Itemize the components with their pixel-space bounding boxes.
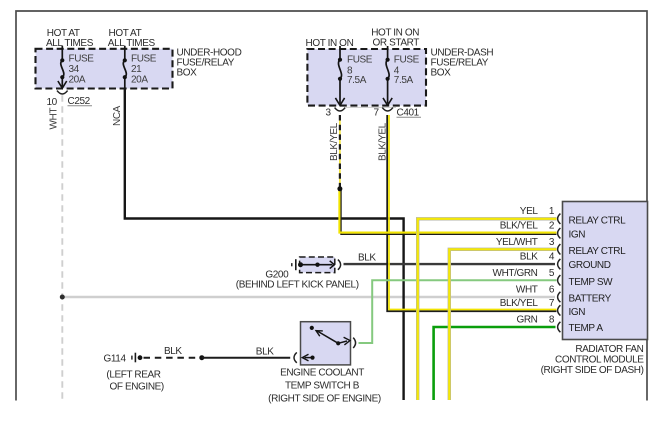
svg-text:BOX: BOX bbox=[431, 67, 452, 78]
svg-text:(RIGHT SIDE OF ENGINE): (RIGHT SIDE OF ENGINE) bbox=[268, 394, 381, 405]
svg-text:OF ENGINE): OF ENGINE) bbox=[110, 382, 164, 393]
svg-text:FUSE: FUSE bbox=[394, 54, 420, 65]
ground symbol G114 bbox=[132, 353, 136, 363]
node junction dot joining dashed and solid BLK/YEL bbox=[337, 186, 342, 191]
node junction dot on WHT wire bbox=[60, 295, 65, 300]
module pin 5 cup bbox=[558, 275, 561, 285]
svg-text:WHT/GRN: WHT/GRN bbox=[493, 268, 538, 279]
wire BLK/YEL to module pin 2 (IGN) - black part bbox=[341, 189, 557, 235]
svg-text:ENGINE COOLANT: ENGINE COOLANT bbox=[280, 368, 364, 379]
connector C252 cup bbox=[57, 91, 68, 94]
svg-text:RADIATOR FAN: RADIATOR FAN bbox=[575, 344, 643, 355]
connector C401 pin 7 cup bbox=[382, 108, 393, 111]
svg-text:BATTERY: BATTERY bbox=[569, 294, 612, 305]
svg-text:5: 5 bbox=[549, 268, 555, 279]
fuse 34 20A (under-hood) bbox=[58, 46, 67, 88]
svg-text:21: 21 bbox=[131, 64, 142, 75]
svg-text:RELAY CTRL: RELAY CTRL bbox=[569, 246, 627, 257]
engine coolant temp switch B box bbox=[301, 322, 351, 365]
wire YEL to module pin 1 (RELAY CTRL) - dark outline bbox=[418, 219, 557, 400]
svg-text:NCA: NCA bbox=[112, 105, 123, 126]
module pin 3 cup bbox=[558, 244, 561, 254]
wire BLK/YEL pair from C401 pin 7 to module pin 7 (IGN) - black part bbox=[387, 115, 556, 311]
svg-text:GROUND: GROUND bbox=[569, 260, 611, 271]
svg-text:BLK/YEL: BLK/YEL bbox=[329, 122, 340, 161]
wire YEL/WHT to module pin 3 (RELAY CTRL) - dark outline bbox=[449, 249, 556, 400]
svg-text:GRN: GRN bbox=[516, 315, 537, 326]
svg-text:BLK: BLK bbox=[256, 346, 274, 357]
connector C401 gray bar bbox=[346, 106, 396, 108]
wire BLK/YEL pair from C401 pin 7 to module pin 7 (IGN) - yellow part bbox=[389, 115, 557, 310]
svg-text:4: 4 bbox=[549, 252, 555, 263]
svg-text:FUSE: FUSE bbox=[347, 54, 373, 65]
svg-text:(RIGHT SIDE OF DASH): (RIGHT SIDE OF DASH) bbox=[541, 365, 644, 376]
svg-text:ALL TIMES: ALL TIMES bbox=[46, 38, 94, 49]
boxes-layer bbox=[36, 49, 648, 365]
svg-text:7.5A: 7.5A bbox=[347, 75, 367, 86]
svg-text:20A: 20A bbox=[69, 75, 86, 86]
module pin 7 cup bbox=[558, 305, 561, 315]
node junction dot on G114 BLK wire bbox=[199, 355, 204, 360]
wire BLK dashed from G114 bbox=[144, 357, 200, 359]
wire BLK/YEL dashed from C401 pin 3 - yellow underlay bbox=[339, 115, 341, 189]
radiator fan control module box bbox=[563, 202, 648, 340]
svg-text:(BEHIND LEFT KICK PANEL): (BEHIND LEFT KICK PANEL) bbox=[236, 279, 359, 290]
svg-text:HOT IN ON: HOT IN ON bbox=[306, 38, 354, 49]
svg-text:BLK: BLK bbox=[520, 252, 538, 263]
components-layer bbox=[57, 46, 560, 363]
svg-text:TEMP A: TEMP A bbox=[569, 323, 604, 334]
temp switch contact dot A bbox=[310, 326, 314, 330]
connector cup right of temp switch bbox=[353, 338, 355, 348]
under-hood fuse/relay box bbox=[36, 49, 173, 89]
svg-text:ALL TIMES: ALL TIMES bbox=[108, 38, 156, 49]
svg-text:IGN: IGN bbox=[569, 230, 586, 241]
svg-text:FUSE: FUSE bbox=[131, 54, 157, 65]
svg-text:TEMP SW: TEMP SW bbox=[569, 277, 614, 288]
module pin 6 cup bbox=[558, 292, 561, 302]
svg-text:BLK: BLK bbox=[164, 346, 182, 357]
svg-text:34: 34 bbox=[69, 64, 80, 75]
wire GRN from module pin 8 (TEMP A) down off-page bbox=[434, 327, 556, 400]
wire BLK from G200 to module pin 4 (GROUND) bbox=[344, 263, 556, 265]
wire YEL to module pin 1 (RELAY CTRL) - yellow core bbox=[418, 219, 557, 400]
wire WHT/GRN from module pin 5 (TEMP SW) to temp switch bbox=[359, 280, 557, 343]
wire YEL/WHT to module pin 3 (RELAY CTRL) - yellow core bbox=[449, 249, 556, 400]
svg-text:WHT: WHT bbox=[49, 108, 60, 130]
svg-text:7: 7 bbox=[549, 298, 555, 309]
svg-text:6: 6 bbox=[549, 285, 555, 296]
wire BLK solid from junction to engine coolant temp switch B bbox=[202, 357, 290, 359]
svg-text:7.5A: 7.5A bbox=[394, 75, 414, 86]
ground symbol G200 bbox=[292, 259, 296, 270]
module pin 8 cup bbox=[558, 322, 561, 332]
svg-text:20A: 20A bbox=[131, 75, 148, 86]
svg-text:3: 3 bbox=[549, 237, 555, 248]
svg-text:WHT: WHT bbox=[516, 285, 538, 296]
svg-text:IGN: IGN bbox=[569, 307, 586, 318]
fuse 21 20A (under-hood) bbox=[123, 46, 126, 89]
svg-text:BLK/YEL: BLK/YEL bbox=[500, 221, 539, 232]
svg-text:FUSE: FUSE bbox=[69, 54, 95, 65]
wire BLK/YEL dashed from C401 pin 3 - black dashes bbox=[339, 115, 341, 189]
svg-text:BOX: BOX bbox=[177, 67, 198, 78]
wire WHT horizontal to module pin 6 (BATTERY) bbox=[62, 296, 555, 299]
svg-text:BLK/YEL: BLK/YEL bbox=[500, 298, 539, 309]
fuse 8 7.5A (under-dash) bbox=[335, 46, 344, 105]
under-dash fuse/relay box bbox=[307, 49, 426, 106]
svg-text:YEL/WHT: YEL/WHT bbox=[496, 237, 538, 248]
fuse 4 7.5A (under-dash) bbox=[383, 46, 392, 105]
svg-text:OR START: OR START bbox=[373, 37, 420, 48]
svg-text:7: 7 bbox=[374, 108, 380, 119]
svg-text:G114: G114 bbox=[104, 354, 127, 365]
svg-text:YEL: YEL bbox=[520, 206, 539, 217]
svg-text:1: 1 bbox=[549, 206, 555, 217]
ground G200 box bbox=[300, 257, 335, 273]
temp switch arm with arrowhead bbox=[317, 331, 338, 343]
temp switch pivot dot B bbox=[336, 341, 340, 345]
module pin 1 cup bbox=[558, 214, 561, 224]
svg-text:TEMP SWITCH B: TEMP SWITCH B bbox=[285, 381, 360, 392]
connector cup left of temp switch bbox=[294, 352, 297, 362]
svg-text:BLK: BLK bbox=[358, 252, 376, 263]
connector C401 pin 3 cup bbox=[335, 108, 346, 111]
module pin 4 cup bbox=[558, 259, 561, 269]
wire NCA black from fuse 21 down, right, and down off-page bbox=[125, 89, 404, 401]
svg-text:3: 3 bbox=[326, 108, 332, 119]
svg-text:(LEFT REAR: (LEFT REAR bbox=[106, 369, 160, 380]
ground G200 internal contact bbox=[300, 264, 333, 266]
svg-text:RELAY CTRL: RELAY CTRL bbox=[569, 215, 627, 226]
temp switch right arrow to pin bbox=[338, 341, 347, 343]
svg-text:2: 2 bbox=[549, 221, 555, 232]
svg-text:8: 8 bbox=[549, 315, 555, 326]
svg-text:10: 10 bbox=[47, 97, 58, 108]
svg-text:BLK/YEL: BLK/YEL bbox=[377, 122, 388, 161]
wires-layer bbox=[60, 89, 557, 401]
module pin 2 cup bbox=[558, 228, 561, 238]
wire WHT dashed vertical from C252 bbox=[61, 95, 63, 400]
wire BLK/YEL to module pin 2 (IGN) - yellow part bbox=[339, 189, 556, 233]
temp switch left arrow to pin bbox=[305, 357, 313, 359]
connector cup right of G200 bbox=[338, 260, 341, 270]
